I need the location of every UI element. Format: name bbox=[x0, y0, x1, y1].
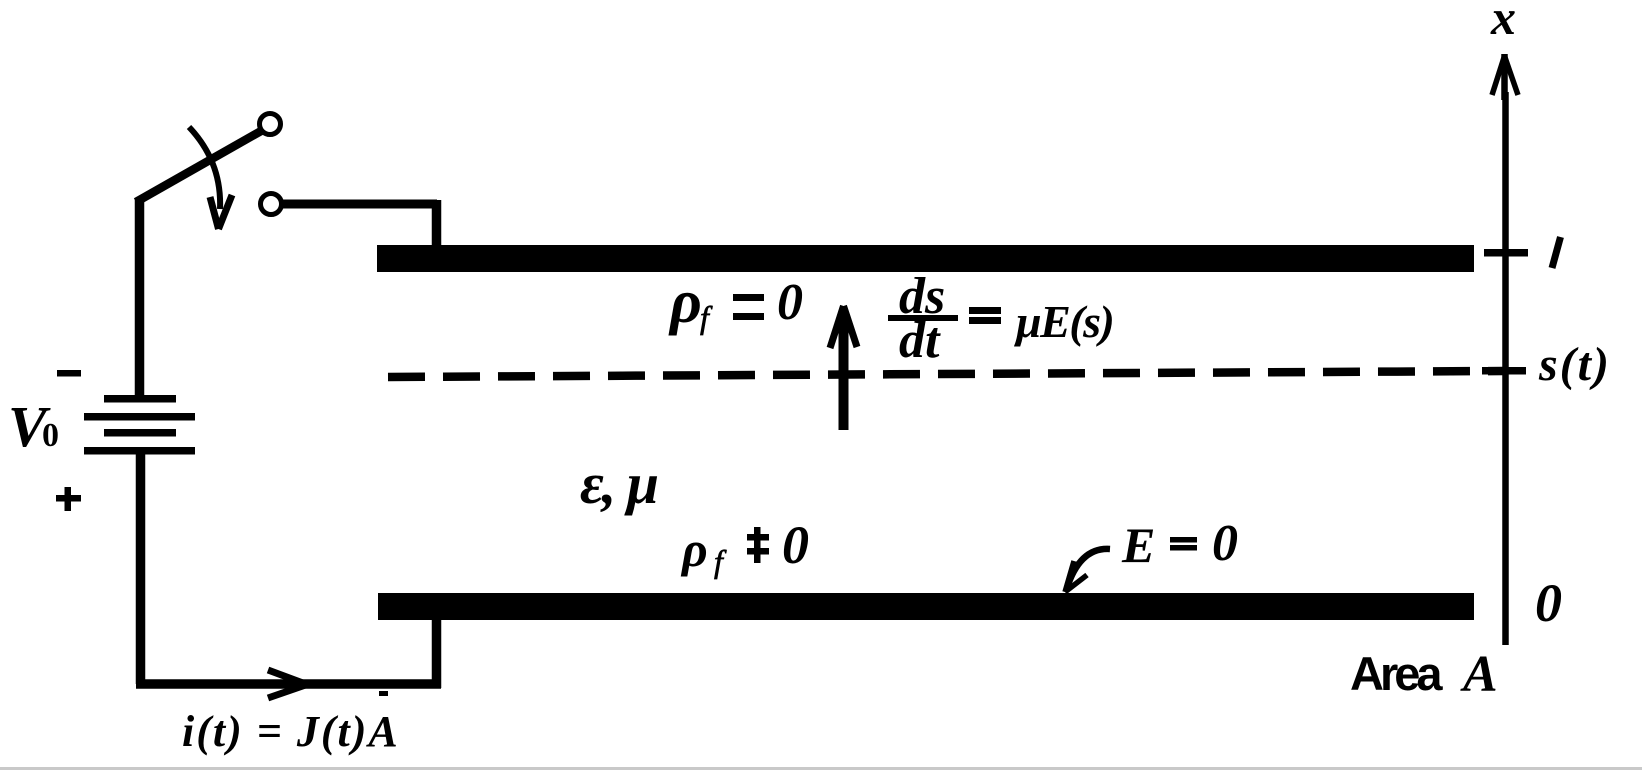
battery minus label bbox=[57, 370, 81, 377]
label rho_f != 0 (lower region) bbox=[680, 515, 809, 579]
svg-text:dt: dt bbox=[899, 312, 941, 369]
switch blade bbox=[136, 131, 261, 202]
battery V0 bbox=[84, 395, 195, 455]
axis tick l bbox=[1484, 249, 1528, 257]
svg-text:0: 0 bbox=[1212, 515, 1238, 572]
label E = 0 with pointer arrow bbox=[1121, 515, 1238, 573]
svg-text:E: E bbox=[1121, 517, 1155, 573]
stray mark under wire bbox=[379, 691, 388, 696]
svg-text:A: A bbox=[1460, 646, 1498, 703]
svg-text:0: 0 bbox=[777, 274, 803, 331]
label rho_f = 0 (upper region) bbox=[668, 268, 803, 336]
bottom plate bbox=[378, 593, 1474, 620]
wire battery bottom to bottom plate bbox=[136, 452, 441, 688]
svg-text:0: 0 bbox=[782, 515, 809, 575]
x axis arrowhead bbox=[1492, 54, 1518, 100]
label ds/dt = muE(s) bbox=[888, 268, 1113, 369]
current direction arrow bbox=[268, 670, 307, 698]
dashed line s(t) bbox=[388, 371, 1504, 377]
svg-text:0: 0 bbox=[42, 417, 59, 454]
velocity up arrow bbox=[830, 306, 857, 430]
pointer arrow to bottom plate (E=0) bbox=[1065, 549, 1110, 592]
scan edge artifact bottom bbox=[0, 767, 1642, 770]
label l bbox=[1552, 237, 1561, 268]
label V0 bbox=[8, 394, 59, 459]
battery plus label bbox=[56, 487, 81, 511]
wire battery top to switch pivot bbox=[135, 199, 145, 398]
wire switch right terminal to top plate bbox=[282, 200, 437, 250]
svg-text:ρ: ρ bbox=[668, 268, 702, 336]
top plate bbox=[377, 245, 1474, 272]
svg-text:ε, μ: ε, μ bbox=[580, 451, 658, 516]
switch terminal top circle bbox=[260, 114, 281, 135]
svg-text:μE(s): μE(s) bbox=[1014, 296, 1113, 347]
svg-text:ρ: ρ bbox=[680, 521, 708, 577]
svg-text:Area: Area bbox=[1350, 647, 1443, 700]
label Area A bbox=[1350, 646, 1498, 703]
axis tick s(t) bbox=[1482, 367, 1526, 375]
switch terminal bottom circle bbox=[261, 194, 282, 215]
svg-text:i(t) = J(t)A: i(t) = J(t)A bbox=[182, 707, 400, 756]
svg-text:s(t): s(t) bbox=[1538, 338, 1611, 391]
switch motion curved arrow bbox=[189, 127, 232, 229]
svg-text:0: 0 bbox=[1535, 573, 1562, 633]
svg-text:x: x bbox=[1490, 0, 1516, 45]
x axis line bbox=[1502, 92, 1509, 645]
